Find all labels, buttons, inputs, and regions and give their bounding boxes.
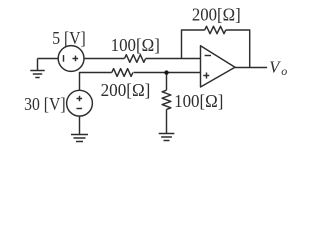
svg-text:100[Ω]: 100[Ω] — [174, 91, 223, 111]
svg-text:200[Ω]: 200[Ω] — [101, 80, 151, 100]
svg-text:5 [V]: 5 [V] — [52, 28, 85, 48]
svg-text:100[Ω]: 100[Ω] — [111, 35, 160, 55]
svg-text:30 [V]: 30 [V] — [24, 94, 66, 114]
svg-text:o: o — [281, 64, 287, 78]
svg-text:200[Ω]: 200[Ω] — [192, 4, 241, 24]
